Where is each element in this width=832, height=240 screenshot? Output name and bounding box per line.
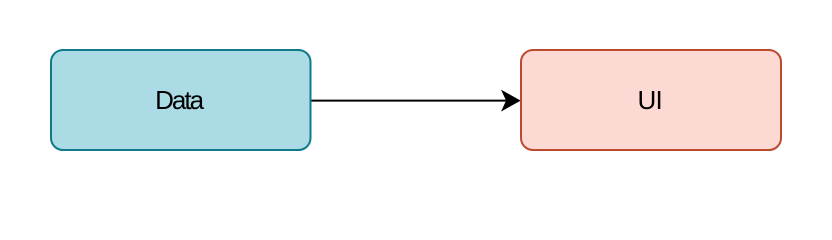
node UI label xyxy=(637,85,662,115)
node Data (box) xyxy=(51,50,311,150)
node Data label xyxy=(155,85,204,115)
node UI (box) xyxy=(521,50,781,150)
svg-text:UI: UI xyxy=(637,85,662,115)
svg-text:Data: Data xyxy=(155,85,204,115)
wire: arrow from Data to UI xyxy=(312,92,519,109)
